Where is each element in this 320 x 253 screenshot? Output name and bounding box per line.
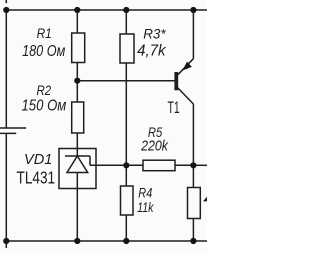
wire: R1 to base node xyxy=(76,63,78,103)
wire: bottom negative rail xyxy=(5,240,207,242)
svg-text:220k: 220k xyxy=(140,139,169,155)
label R4 value 11k xyxy=(137,199,154,215)
wire: VD1 reference to divider node xyxy=(90,164,126,166)
svg-text:180 Ом: 180 Ом xyxy=(22,43,65,60)
resistor R3 body xyxy=(120,34,134,63)
wire: R5 to collector node xyxy=(175,164,193,166)
svg-text:4,7k: 4,7k xyxy=(137,42,167,59)
label T1 xyxy=(168,98,180,117)
label R1 xyxy=(37,26,52,42)
junction: R1/R2 base node xyxy=(74,78,80,84)
junction: top rail / left supply xyxy=(3,7,9,13)
shunt regulator VD1 TL431 box xyxy=(59,149,96,189)
transistor T1 base bar xyxy=(174,72,178,90)
wire: top-left stub above junction xyxy=(5,0,7,3)
label R6 (cut off at right edge) xyxy=(203,196,208,201)
wire: divider node to R5 xyxy=(126,164,143,166)
transistor T1 emitter wire to top rail xyxy=(192,10,194,59)
svg-text:T1: T1 xyxy=(168,98,180,117)
battery GB1 negative plate (short) xyxy=(0,132,16,134)
wire: left supply wire upper (battery + to top rail) xyxy=(5,10,7,128)
svg-text:TL431: TL431 xyxy=(17,167,56,187)
junction: bottom rail / R4 xyxy=(123,238,129,244)
wire: R2 to VD1 cathode xyxy=(76,133,78,156)
wire: base wire from R1/R2 node to T1 base xyxy=(77,80,174,82)
label R1 value 180 Ом xyxy=(22,43,65,60)
svg-text:11k: 11k xyxy=(137,199,154,215)
transistor T1 emitter diagonal xyxy=(178,59,194,75)
svg-text:150 Ом: 150 Ом xyxy=(22,97,67,114)
label R5 value 220k xyxy=(140,139,169,155)
junction: reference divider node xyxy=(123,162,129,168)
svg-text:R3*: R3* xyxy=(143,27,166,43)
VD1 cathode bar xyxy=(65,155,90,157)
junction: top rail / R3 xyxy=(123,7,129,13)
wire: R4 to bottom rail xyxy=(125,215,127,241)
label R3* xyxy=(143,27,166,43)
wire: VD1 anode to bottom rail xyxy=(76,173,78,242)
junction: bottom rail / R6 xyxy=(190,238,196,244)
wire: output to right edge xyxy=(193,164,207,166)
resistor R2 body xyxy=(72,102,84,133)
wire: left supply wire lower (battery - to bottom rail) xyxy=(5,133,7,248)
wire: output node to R6 xyxy=(192,165,194,187)
svg-text:R1: R1 xyxy=(37,26,52,42)
VD1 zener triangle (anode) xyxy=(67,156,88,173)
wire: divider node to R4 xyxy=(125,165,127,186)
label R5 xyxy=(148,125,163,140)
wire: top rail to R1 xyxy=(76,10,78,33)
label R2 value 150 Ом xyxy=(22,97,67,114)
battery GB1 positive plate (long) xyxy=(0,127,26,129)
label R2 xyxy=(37,83,52,99)
resistor R1 body xyxy=(72,33,85,63)
label R3 value 4,7k xyxy=(137,42,167,59)
resistor R6 body (cut by right edge) xyxy=(188,188,201,219)
resistor R5 body (horizontal) xyxy=(143,160,175,171)
wire: VD1 reference step down xyxy=(89,156,91,165)
junction: collector output node xyxy=(190,162,196,168)
wire: top +V rail xyxy=(6,9,207,11)
junction: bottom rail / VD1 anode xyxy=(74,238,80,244)
wire: top rail to R3 xyxy=(125,10,127,34)
junction: top rail / T1 emitter xyxy=(190,7,196,13)
junction: bottom rail / left supply xyxy=(3,238,9,244)
wire: R6 to bottom rail xyxy=(192,219,194,242)
label VD1 type TL431 xyxy=(17,167,56,187)
junction: top rail / R1 xyxy=(74,7,80,13)
wire: T1 collector down to output node xyxy=(192,104,194,165)
label R4 xyxy=(138,184,152,200)
resistor R4 body xyxy=(121,186,134,215)
transistor T1 emitter arrow (PNP, points to base) xyxy=(182,62,192,71)
transistor T1 collector diagonal xyxy=(178,88,194,104)
svg-text:VD1: VD1 xyxy=(24,152,52,168)
label VD1 xyxy=(24,152,52,168)
wire: R3 down to reference node (crosses base wire) xyxy=(125,63,127,165)
